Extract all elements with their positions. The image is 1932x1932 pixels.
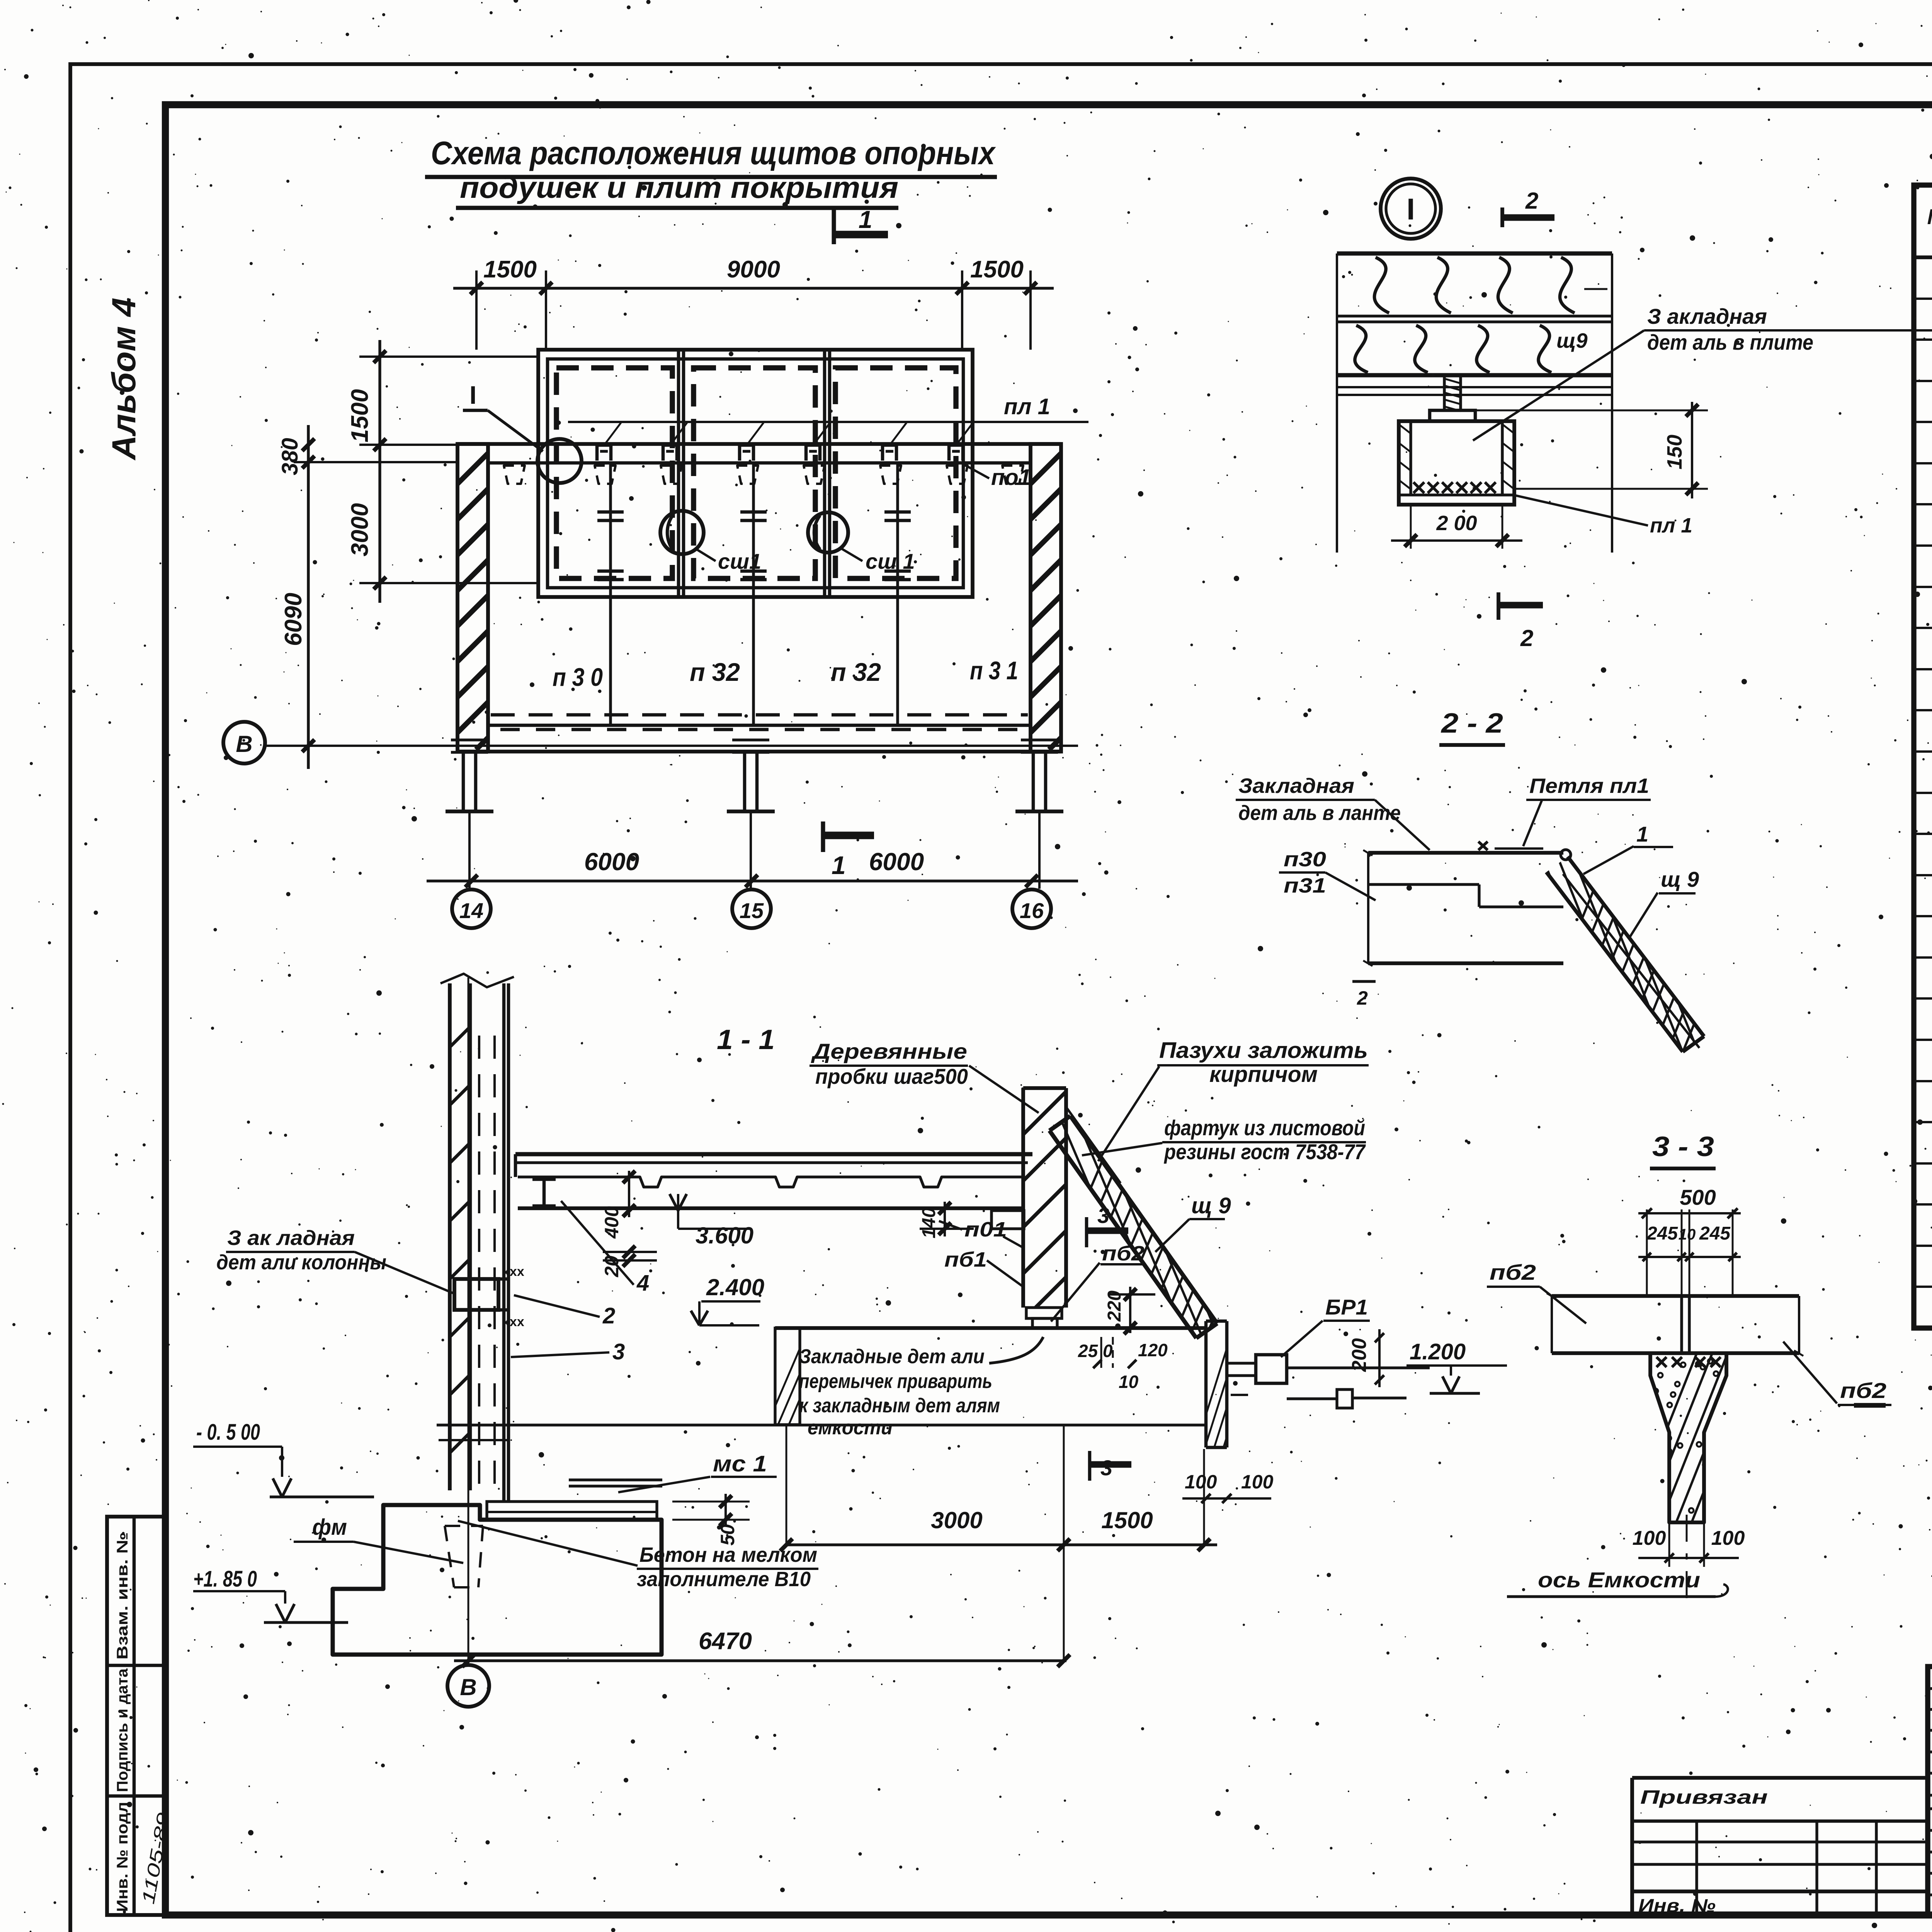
svg-text:15: 15 — [740, 898, 764, 923]
svg-text:Бетон на мелком: Бетон на мелком — [639, 1543, 817, 1566]
detail I: dim 200 (bottom) — [1391, 505, 1522, 549]
svg-text:резины гост 7538-77: резины гост 7538-77 — [1163, 1139, 1366, 1164]
svg-text:6000: 6000 — [584, 848, 639, 876]
1-1: leader labels 4 2 3 — [511, 1201, 649, 1364]
3-3: keystone support with concrete hatch — [1627, 1345, 1824, 1530]
svg-text:400: 400 — [601, 1206, 622, 1239]
svg-text:14: 14 — [459, 898, 483, 923]
svg-text:Схема расположения щитов оп: Схема расположения щитов опорных — [431, 135, 996, 171]
svg-text:В: В — [236, 731, 252, 757]
svg-text:п30: п30 — [1284, 848, 1326, 871]
svg-text:щ9: щ9 — [1556, 329, 1588, 352]
detail I: anchor bolt and embedded box — [1399, 377, 1514, 505]
spec table grid — [1914, 185, 1932, 1328]
main title: Схема расположения щитов опорных подушек и плит покрытия — [425, 135, 997, 208]
stray mark left of notes — [1854, 1403, 1886, 1408]
section 1-1 title — [717, 1024, 775, 1055]
plan: lifting hooks row on plates — [568, 422, 1088, 461]
svg-text:пб2: пб2 — [1102, 1242, 1145, 1265]
svg-text:п 3 1: п 3 1 — [970, 656, 1018, 685]
1-1: steel beam line under plate — [518, 1179, 1023, 1208]
1-1: text Закладная деталь колонны with leader — [216, 1226, 454, 1294]
svg-text:6090: 6090 — [280, 593, 307, 646]
svg-text:мс 1: мс 1 — [713, 1451, 767, 1476]
plan: left dimension chain 1500/3000 — [347, 340, 537, 603]
svg-text:100: 100 — [1633, 1527, 1666, 1549]
1-1: text Пазухи заложить кирпичом — [1098, 1038, 1369, 1161]
svg-text:подушек и плит покрытия: подушек и плит покрытия — [460, 170, 898, 204]
spec table header texts — [1927, 204, 1932, 255]
svg-text:200: 200 — [1348, 1338, 1371, 1372]
svg-text:дет аль в ланте: дет аль в ланте — [1238, 801, 1401, 825]
svg-text:по1: по1 — [991, 465, 1031, 490]
2-2: small section marks 2 — [1352, 981, 1376, 1009]
detail I: plate band with wood-grain waves — [1337, 253, 1612, 553]
1-1: bottom dimension 6470 — [454, 1425, 1070, 1667]
svg-text:100: 100 — [1185, 1471, 1217, 1493]
svg-text:емкости: емкости — [808, 1417, 893, 1439]
svg-text:Петля пл1: Петля пл1 — [1529, 774, 1649, 798]
plan: support pads dashed marks under rim — [504, 466, 1023, 484]
svg-text:6470: 6470 — [699, 1628, 752, 1655]
1-1: dim 200 and level 1.200 — [1348, 1329, 1507, 1393]
svg-text:+1. 85 0: +1. 85 0 — [193, 1566, 257, 1592]
grid axis B circle and axis line — [223, 722, 1078, 764]
svg-text:2: 2 — [1357, 987, 1368, 1009]
svg-text:фартук из листовой: фартук из листовой — [1164, 1116, 1365, 1140]
1-1: right wall (hatched) with parapet — [804, 1088, 1301, 1328]
svg-text:9000: 9000 — [727, 256, 780, 283]
2-2: sloped shield panel with crosshatch — [1522, 846, 1843, 1066]
svg-text:6000: 6000 — [869, 848, 924, 876]
detail I: thin double line under band — [1337, 387, 1612, 395]
svg-text:Инв. №: Инв. № — [1638, 1896, 1716, 1916]
detail I: section mark 2 (bottom) — [1498, 592, 1543, 651]
detail I: dim 150 right vertical small — [1584, 288, 1607, 290]
1-1: dim 50 at base plate — [672, 1494, 750, 1546]
plan: water level dashed lines — [491, 715, 1028, 730]
title block main outline — [1928, 1667, 1932, 1915]
svg-text:3: 3 — [612, 1339, 625, 1364]
detail I: marker circle with letter I — [1381, 179, 1441, 239]
svg-text:1.200: 1.200 — [1410, 1339, 1466, 1364]
svg-text:БР1: БР1 — [1325, 1295, 1368, 1319]
1-1: dims 100 100 at curb — [1182, 1471, 1274, 1503]
1-1: left wall and column — [0, 974, 971, 1502]
section 2-2 title — [1439, 708, 1505, 745]
svg-text:1: 1 — [832, 851, 846, 879]
plan: label по1 — [966, 465, 1031, 490]
svg-text:- 0. 5 00: - 0. 5 00 — [196, 1420, 260, 1445]
1-1: level mark 3.600 — [670, 1194, 753, 1248]
svg-text:п 32: п 32 — [690, 658, 740, 686]
2-2: text Закладная деталь в плите — [1236, 774, 1430, 850]
title block left grid — [1928, 1667, 1932, 1915]
svg-text:1500: 1500 — [347, 389, 373, 442]
svg-text:xxx: xxx — [502, 1264, 524, 1279]
svg-text:кирпичом: кирпичом — [1209, 1062, 1318, 1087]
1-1: tank bottom slab and ground line — [437, 1321, 1206, 1440]
detail I: section mark 2 (top) — [1502, 188, 1554, 227]
1-1: vertical dim 220 right of wall — [1104, 1287, 1155, 1334]
svg-text:150: 150 — [1663, 435, 1686, 469]
svg-text:перемычек приварить: перемычек приварить — [799, 1370, 992, 1393]
1-1: labels ПО1 ПБ1 ПБ2 — [939, 1218, 1145, 1321]
svg-text:380: 380 — [277, 438, 303, 475]
svg-text:2: 2 — [1525, 188, 1538, 214]
svg-text:2: 2 — [1520, 625, 1533, 651]
1-1: vertical dim 140 near wall — [919, 1202, 974, 1238]
section 3-3 title — [1650, 1131, 1716, 1168]
1-1: sloped shield Щ9 with cross hatch — [1024, 1106, 1335, 1345]
plan: joint connector tick pairs — [597, 512, 911, 580]
plan: tank walls with hatching — [156, 444, 1386, 752]
1-1: text Деревянные пробки шаг500 — [810, 1039, 1039, 1113]
svg-text:пб1: пб1 — [944, 1248, 987, 1271]
svg-text:245: 245 — [1699, 1223, 1731, 1244]
1-1: curb area at slope bottom (БР1) — [1194, 1318, 1430, 1453]
1-1: small vertical dims 400 and 20 — [601, 1171, 657, 1277]
svg-text:В: В — [460, 1674, 476, 1700]
section mark 1 (top) — [834, 206, 888, 244]
привязан sub table — [1632, 1778, 1928, 1916]
2-2: text Петля пл 1 — [1523, 774, 1651, 846]
svg-text:1 - 1: 1 - 1 — [717, 1024, 775, 1055]
2-2: leader labels 1 and Щ9 — [1583, 822, 1699, 937]
svg-text:пробки шаг500: пробки шаг500 — [815, 1064, 968, 1088]
plan: top dimension line 1500/9000/1500 — [453, 256, 1054, 350]
3-3: labels ПБ2 left and right — [1487, 1260, 1891, 1405]
1-1: section marks 3-3 — [1087, 1203, 1131, 1481]
svg-text:3000: 3000 — [347, 503, 373, 556]
svg-text:Пазухи заложить: Пазухи заложить — [1159, 1038, 1368, 1063]
svg-text:дет аль в плите: дет аль в плите — [1647, 330, 1813, 354]
1-1: text Бетон на мелком заполнителе В10 — [458, 1521, 818, 1591]
svg-text:2 00: 2 00 — [1436, 512, 1477, 535]
section mark 1 (bottom of plan) — [823, 821, 874, 879]
1-1: dims 3000 and 1500 — [780, 1426, 1217, 1551]
svg-text:Привязан: Привязан — [1640, 1786, 1768, 1808]
plan: label пл 1 — [1004, 394, 1050, 419]
svg-text:Марка: Марка — [1927, 204, 1932, 229]
plan: detail circle I with leader — [463, 381, 582, 483]
vertical label: Альбом 4 — [105, 298, 143, 461]
svg-text:щ 9: щ 9 — [1191, 1193, 1231, 1218]
svg-text:п 32: п 32 — [831, 658, 881, 686]
svg-text:2 - 2: 2 - 2 — [1440, 708, 1503, 739]
svg-text:1500: 1500 — [483, 256, 537, 283]
svg-text:3: 3 — [1097, 1203, 1109, 1228]
svg-text:3000: 3000 — [931, 1507, 982, 1533]
svg-text:ось Емкости: ось Емкости — [1538, 1568, 1700, 1592]
svg-text:25 0: 25 0 — [1078, 1341, 1113, 1361]
svg-text:Закладные дет али: Закладные дет али — [799, 1345, 985, 1368]
svg-text:Альбом 4: Альбом 4 — [105, 298, 143, 461]
svg-text:щ 9: щ 9 — [1661, 867, 1699, 891]
2-2: plate cross-section with step — [1363, 842, 1571, 966]
svg-text:120: 120 — [1138, 1340, 1168, 1360]
left margin stamp boxes (Взам.инв / Подпись и дата / Инв.№ подл) — [107, 1517, 174, 1915]
detail I: label пл1 with leader — [1515, 495, 1692, 537]
1-1: embedded plate on column (закладная деталь колонны) — [454, 1264, 524, 1329]
3-3: dims 100 100 under keystone — [1633, 1522, 1745, 1567]
svg-text:xxx: xxx — [502, 1315, 524, 1329]
svg-text:пб2: пб2 — [1490, 1260, 1536, 1284]
plan: plate labels П30 П32 П32 П31 — [553, 656, 1018, 691]
svg-text:I: I — [469, 381, 476, 409]
svg-text:500: 500 — [1680, 1185, 1716, 1209]
svg-text:заполнителе В10: заполнителе В10 — [637, 1568, 811, 1591]
plan: support legs under tank — [446, 740, 1063, 889]
svg-text:пл 1: пл 1 — [1650, 514, 1692, 537]
1-1: label БР1 with leader — [1281, 1295, 1370, 1357]
plan: cover plate joint lines — [611, 463, 898, 725]
svg-text:1500: 1500 — [1101, 1507, 1153, 1533]
plan: СШ1 connection circles with labels — [660, 511, 915, 573]
svg-text:2.400: 2.400 — [706, 1274, 764, 1300]
3-3: lintel slab band with joint — [1547, 1293, 1803, 1356]
svg-text:140: 140 — [919, 1207, 939, 1238]
detail I: text Закладная деталь в плите with long leader — [1473, 304, 1932, 440]
svg-text:2: 2 — [602, 1303, 615, 1328]
svg-text:1500: 1500 — [970, 256, 1024, 283]
svg-text:Инв. № подл: Инв. № подл — [114, 1802, 131, 1912]
1-1: фм label and leader — [294, 1515, 463, 1563]
svg-text:245: 245 — [1646, 1223, 1678, 1244]
svg-text:I: I — [1406, 192, 1415, 226]
3-3: ось емкости axis text — [1507, 1515, 1728, 1607]
1-1: МС1 base detail and foundation — [333, 978, 777, 1707]
plan: roof slab rectangle (double outline) — [538, 350, 973, 597]
svg-text:фм: фм — [312, 1515, 347, 1540]
svg-text:1: 1 — [859, 206, 872, 233]
svg-text:100: 100 — [1711, 1527, 1745, 1549]
1-1: level mark 2.400 — [691, 1274, 764, 1325]
svg-text:З ак ладная: З ак ладная — [227, 1226, 355, 1250]
svg-text:Деревянные: Деревянные — [811, 1039, 967, 1063]
1-1: text Закладные детали перемычек приварить — [799, 1337, 1168, 1439]
svg-text:п01: п01 — [964, 1218, 1007, 1241]
svg-text:3.600: 3.600 — [696, 1223, 753, 1248]
svg-text:Подпись и дата: Подпись и дата — [114, 1668, 131, 1792]
svg-text:4: 4 — [636, 1270, 649, 1296]
3-3: x weld marks under slab — [1656, 1357, 1721, 1367]
svg-text:16: 16 — [1020, 898, 1044, 923]
svg-text:1: 1 — [1636, 822, 1648, 846]
svg-text:10: 10 — [1119, 1372, 1139, 1392]
svg-text:100: 100 — [1241, 1471, 1274, 1493]
plan: outer left dimension chain 380/6090 — [277, 425, 457, 769]
3-3: dimension 500 and 245/10/245 — [1638, 1185, 1741, 1296]
detail I: dim 150 (right) — [1477, 402, 1708, 498]
svg-text:Взам. инв. №: Взам. инв. № — [114, 1532, 131, 1660]
svg-text:пл 1: пл 1 — [1004, 394, 1050, 419]
1-1: label Щ9 with leader — [1155, 1193, 1231, 1252]
svg-text:п31: п31 — [1284, 874, 1326, 897]
plan: dashed panel rectangles (3 shields) — [556, 368, 956, 578]
svg-text:п 3 0: п 3 0 — [553, 663, 603, 691]
svg-text:к закладным дет алям: к закладным дет алям — [799, 1395, 1000, 1417]
svg-text:пб2: пб2 — [1840, 1378, 1886, 1403]
svg-text:З акладная: З акладная — [1647, 304, 1767, 328]
2-2: labels П30/П31 — [1279, 848, 1376, 900]
1-1: text фартук из листовой резины — [1082, 1116, 1366, 1164]
1-1: roof plate with ribs — [515, 1154, 1032, 1187]
plan: bottom dimension line 6000/6000 with axis circles 14 15 16 — [427, 848, 1078, 928]
1-1: right edge small pipe marks — [1287, 1389, 1406, 1408]
svg-text:Закладная: Закладная — [1238, 774, 1354, 798]
1-1: level marks -0.500 and +1.850 — [193, 1420, 374, 1622]
svg-text:3 - 3: 3 - 3 — [1652, 1131, 1714, 1162]
